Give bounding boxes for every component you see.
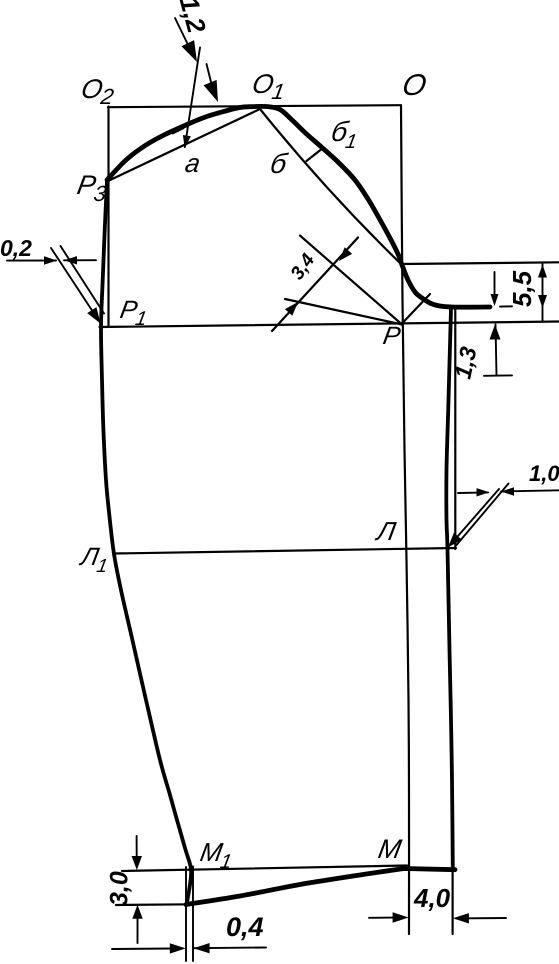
dimension 5,5 line — [542, 264, 544, 322]
dimension 1,0 slash 2 — [457, 484, 509, 546]
wire companion vertical right of seam — [454, 310, 456, 550]
wire extension vertical right 0,4 — [192, 867, 194, 962]
dimension 0,4 line right — [194, 947, 266, 950]
dimension 0,2 slash 1 and leader to P1 — [51, 248, 97, 318]
svg-text:5,5: 5,5 — [507, 270, 537, 307]
wire tick b perpendicular — [307, 148, 324, 161]
dimension 4,0 line left — [369, 917, 395, 919]
dimension 3,4 arrows — [339, 247, 352, 261]
wire left vertical O2-P1 — [107, 107, 109, 328]
dimension 1,2 leader lower — [207, 64, 214, 90]
wire diagonal P to curve — [402, 294, 430, 324]
dimension 1,3 upper arrow line — [494, 272, 496, 300]
svg-text:4,0: 4,0 — [413, 883, 451, 913]
svg-text:3,0: 3,0 — [106, 871, 134, 906]
dimension 1,3 lower arrow and leader — [496, 325, 497, 376]
dimension 0,2 slash 2 — [61, 246, 105, 314]
dimension 1,3 shelf — [484, 374, 512, 376]
wire lower 3,4 fan line — [285, 299, 402, 325]
wire P1-P horizontal line — [100, 322, 559, 328]
dimension 4,0 line right — [456, 917, 506, 919]
dimension 3,0 upper arrow line — [136, 836, 138, 856]
wire extension vertical left 0,4 — [185, 867, 187, 961]
wire flat-extension dash — [500, 305, 512, 307]
dimension 0,2 line right — [64, 259, 96, 261]
wire M1-M horizontal line — [122, 866, 407, 872]
svg-text:0,2: 0,2 — [0, 235, 32, 261]
svg-text:0,4: 0,4 — [226, 912, 264, 942]
wire extension below hem right seam — [452, 871, 454, 934]
dimension 0,4 line left — [112, 948, 173, 951]
wire tick a perpendicular — [173, 128, 183, 133]
wire center vertical O-P-L-M — [401, 105, 409, 934]
dimension 0,2 line left — [7, 260, 56, 262]
wire chord O1-P2 — [260, 109, 401, 264]
hem thick line M1 to M — [186, 869, 455, 905]
sleeve cap thick curve P3-O1-P2-flat — [107, 106, 490, 307]
left seam thick P3-P1-M1 — [101, 181, 191, 905]
dimension 1,0 slash 1 and leader to L junction — [451, 489, 499, 544]
wire lower hem reference line — [116, 903, 192, 906]
dimension 3,0 lower arrow line — [137, 919, 139, 943]
wire 3,4 dimension line — [272, 238, 358, 332]
wire chord P3-O1 — [108, 109, 260, 181]
right seam thick — [446, 309, 452, 868]
wire upper 3,4 fan line — [300, 236, 402, 325]
dimension 1,2 cross line — [185, 48, 200, 148]
wire right horizontal at P2 level — [401, 262, 559, 264]
dimension 1,0 line right — [501, 490, 559, 491]
dimension 1,0 line left — [458, 491, 488, 494]
svg-text:1,0: 1,0 — [529, 461, 559, 486]
wire L line horizontal — [114, 548, 456, 554]
wire top construction line O2-O — [108, 105, 401, 107]
dimension 1,2 leader upper — [175, 18, 192, 53]
